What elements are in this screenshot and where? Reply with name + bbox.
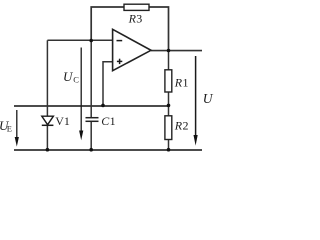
svg-text:C: C xyxy=(73,75,79,85)
svg-text:R3: R3 xyxy=(128,11,143,25)
svg-text:C1: C1 xyxy=(101,114,115,128)
svg-text:E: E xyxy=(7,124,12,134)
svg-text:U: U xyxy=(203,91,214,106)
svg-text:V1: V1 xyxy=(55,114,70,128)
svg-text:R2: R2 xyxy=(174,119,189,133)
svg-text:R1: R1 xyxy=(174,75,189,89)
